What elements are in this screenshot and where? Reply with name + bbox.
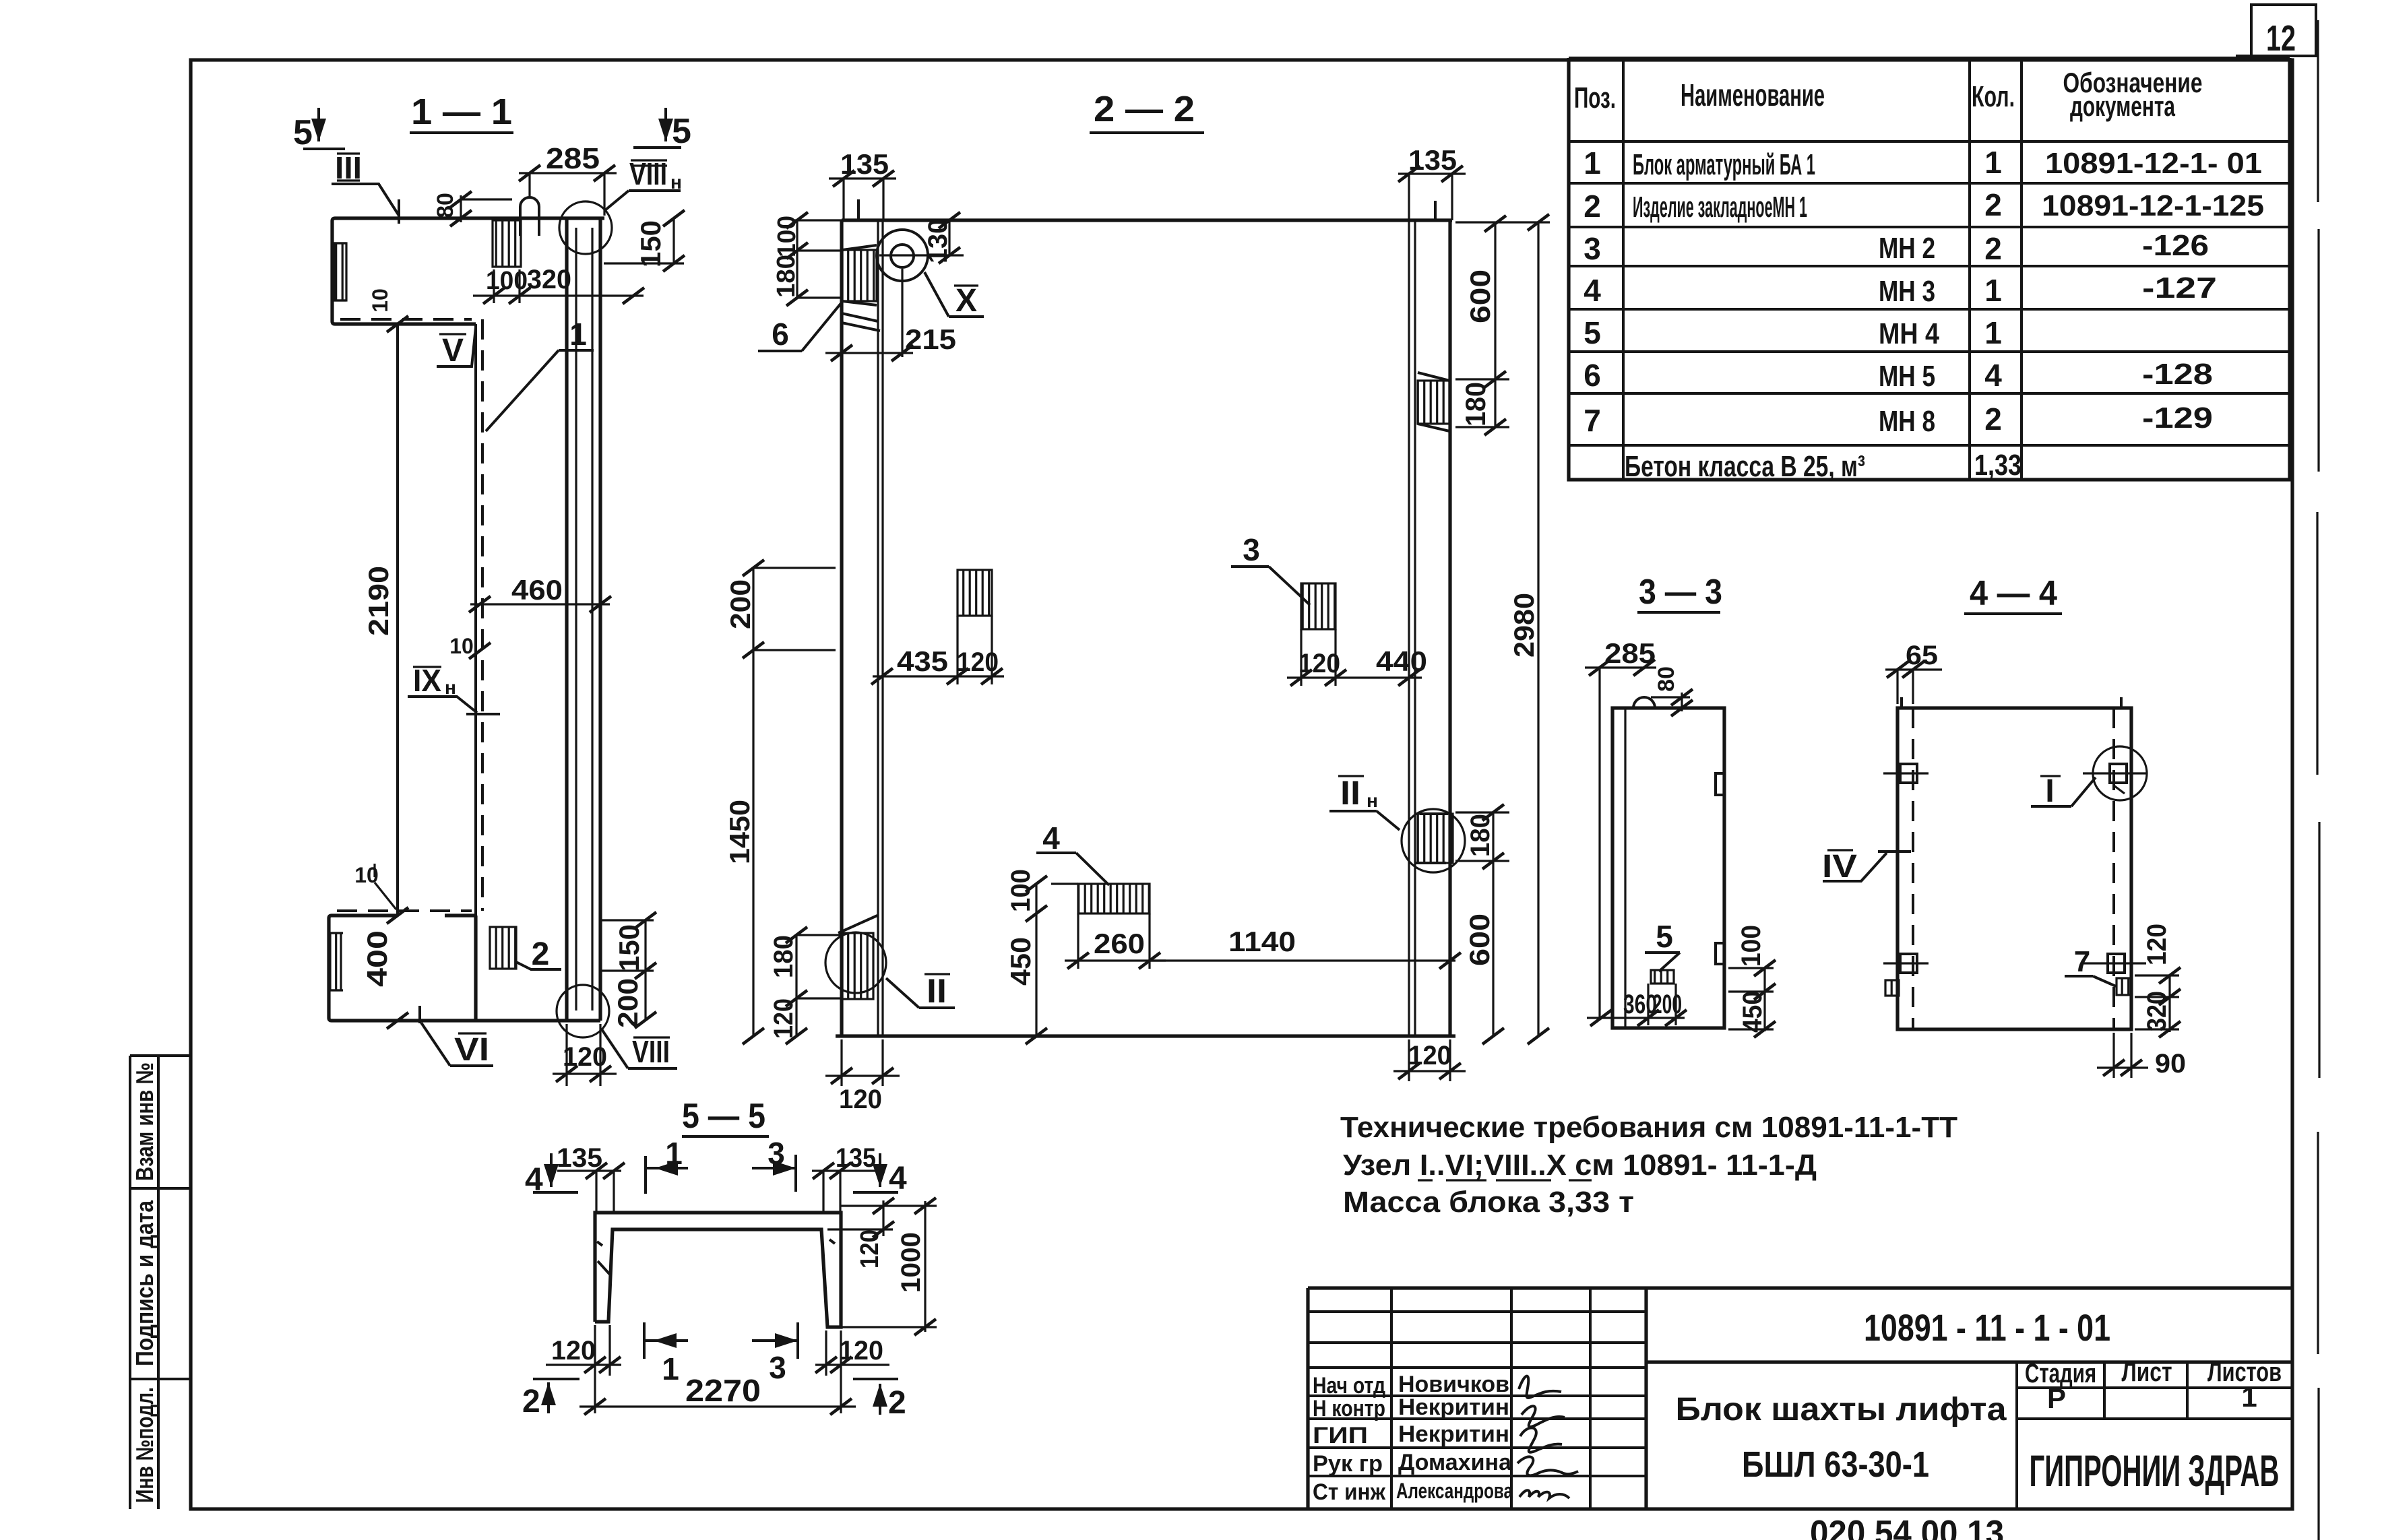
svg-text:IV: IV xyxy=(1822,849,1857,885)
plate edge marks right side xyxy=(1716,773,1724,964)
svg-text:I: I xyxy=(2045,773,2054,809)
table header Поз xyxy=(1574,82,1616,115)
dim 80 of 3-3 xyxy=(1651,666,1693,716)
table row 4 МН3 xyxy=(1584,271,2217,308)
svg-text:10: 10 xyxy=(368,288,392,313)
svg-text:10891-12-1- 01: 10891-12-1- 01 xyxy=(2045,147,2262,180)
stamp label Инв № подл xyxy=(131,1387,158,1503)
plate МН4 in 3-3 xyxy=(1651,970,1674,984)
svg-text:2: 2 xyxy=(888,1385,906,1421)
table header Наименование xyxy=(1681,77,1825,113)
svg-text:600: 600 xyxy=(1464,269,1496,323)
dims 120 320 of 4-4 xyxy=(2135,924,2181,1037)
section 2-2 right wall xyxy=(1409,220,1450,1036)
svg-text:МН 3: МН 3 xyxy=(1879,275,1935,308)
svg-text:135: 135 xyxy=(840,148,889,180)
leader label 7 xyxy=(2065,945,2116,986)
node II bottom left wall xyxy=(825,916,955,1010)
svg-text:2: 2 xyxy=(1984,187,2002,222)
node II_н bottom right wall xyxy=(1329,774,1465,872)
svg-text:3 — 3: 3 — 3 xyxy=(1639,573,1722,612)
dim 120 bottom left of 5-5 xyxy=(546,1325,621,1413)
svg-text:Некритин: Некритин xyxy=(1398,1421,1509,1447)
section 2-2 bottom edge xyxy=(836,1034,1455,1037)
svg-text:285: 285 xyxy=(1604,637,1656,669)
node label III xyxy=(332,150,399,224)
section mark 5 down right xyxy=(633,108,691,151)
right wall of 1-1 xyxy=(567,218,600,1021)
svg-text:БШЛ 63-30-1: БШЛ 63-30-1 xyxy=(1742,1444,1929,1485)
svg-text:150: 150 xyxy=(613,924,645,971)
dims 180 120 bottom left xyxy=(769,927,842,1044)
left stamp column boxes xyxy=(130,1056,191,1509)
svg-text:VI: VI xyxy=(454,1032,489,1068)
svg-text:150: 150 xyxy=(635,220,666,267)
section 5-5 channel outline xyxy=(595,1213,841,1327)
svg-text:Технические требования см 1: Технические требования см 10891-11-1-ТТ xyxy=(1340,1111,1957,1144)
dim 260 xyxy=(1065,913,1166,969)
dims 120 440 mid right xyxy=(1287,629,1427,686)
lifting loop xyxy=(520,197,539,236)
cut marker 1 top xyxy=(646,1136,688,1194)
dim 285 of 3-3 xyxy=(1585,637,1656,1018)
svg-text:180: 180 xyxy=(769,935,798,978)
plate МН3 bottom center xyxy=(1036,821,1150,913)
dim 120 under left wall xyxy=(825,1039,900,1114)
note line 2 Узел I..VI VIII X xyxy=(1343,1149,1817,1182)
section mark 4 down right xyxy=(853,1153,907,1196)
svg-text:II: II xyxy=(927,972,947,1010)
left wall verticals of 1-1 xyxy=(398,319,482,916)
svg-text:320: 320 xyxy=(2142,991,2172,1031)
svg-text:Александрова: Александрова xyxy=(1396,1479,1513,1503)
section 3-3 outline xyxy=(1612,708,1724,1028)
title block outer lines xyxy=(1308,1288,2292,1509)
svg-text:2 — 2: 2 — 2 xyxy=(1094,89,1195,129)
svg-text:Домахина: Домахина xyxy=(1398,1450,1512,1475)
left side plates of 4-4 xyxy=(1883,764,1929,996)
svg-text:7: 7 xyxy=(2074,945,2090,978)
svg-text:1: 1 xyxy=(2241,1381,2257,1413)
dim 120 bottom of 1-1 xyxy=(553,1024,617,1086)
svg-text:IX: IX xyxy=(413,663,441,698)
dim 180 right top xyxy=(1455,379,1509,435)
dim 10 upper xyxy=(368,288,408,332)
svg-text:120: 120 xyxy=(1408,1041,1451,1070)
ghost archive number below frame xyxy=(1810,1514,2004,1540)
svg-text:3: 3 xyxy=(767,1136,785,1171)
dim 10 middle xyxy=(449,634,491,659)
svg-text:1: 1 xyxy=(665,1136,683,1171)
dim 460 xyxy=(469,574,611,612)
svg-text:1,33: 1,33 xyxy=(1974,449,2021,482)
staff row Нач отд Новичков xyxy=(1313,1372,1561,1399)
svg-text:5: 5 xyxy=(293,113,313,152)
svg-text:Поз.: Поз. xyxy=(1574,82,1616,115)
svg-text:Кол.: Кол. xyxy=(1972,80,2015,113)
svg-text:65: 65 xyxy=(1906,641,1938,670)
staff row Н контр Некритин xyxy=(1313,1394,1565,1427)
leg inner marks xyxy=(597,1240,835,1276)
svg-text:4 — 4: 4 — 4 xyxy=(1970,574,2057,613)
svg-text:VIII: VIII xyxy=(632,1034,670,1069)
table header Обозначение документа xyxy=(2063,67,2203,122)
svg-text:Изделие закладноеМН 1: Изделие закладноеМН 1 xyxy=(1633,191,1807,224)
svg-text:5: 5 xyxy=(1584,315,1601,350)
svg-text:4: 4 xyxy=(1984,358,2002,393)
dims 435 120 mid left xyxy=(871,616,1004,684)
svg-text:120: 120 xyxy=(856,1229,884,1269)
dim 10 lower xyxy=(354,863,396,909)
parts table grid xyxy=(1569,58,2290,480)
svg-text:н: н xyxy=(1367,790,1378,811)
svg-text:документа: документа xyxy=(2070,90,2175,122)
svg-text:2270: 2270 xyxy=(685,1373,761,1408)
svg-text:Наименование: Наименование xyxy=(1681,77,1825,113)
svg-text:5: 5 xyxy=(672,112,691,151)
svg-text:460: 460 xyxy=(511,574,563,606)
svg-text:200: 200 xyxy=(612,978,644,1028)
svg-text:135: 135 xyxy=(1408,144,1457,176)
section 3-3 lifting loop xyxy=(1633,697,1655,708)
node label IX xyxy=(408,663,500,714)
svg-text:90: 90 xyxy=(2155,1049,2186,1079)
title Блок шахты лифта xyxy=(1676,1392,2007,1427)
mark БШЛ 63-30-1 xyxy=(1742,1444,1929,1485)
svg-text:-128: -128 xyxy=(2142,358,2213,391)
svg-text:10891 - 11 - 1 - 01: 10891 - 11 - 1 - 01 xyxy=(1864,1306,2110,1349)
svg-text:135: 135 xyxy=(836,1143,876,1173)
svg-text:МН 8: МН 8 xyxy=(1879,405,1935,438)
dim 100 320 xyxy=(473,265,644,304)
svg-text:100: 100 xyxy=(486,267,528,295)
svg-text:100: 100 xyxy=(1736,925,1766,967)
svg-text:2: 2 xyxy=(522,1384,540,1419)
dim 150 top xyxy=(604,210,685,271)
dim 120 slab of 5-5 xyxy=(827,1198,937,1269)
svg-text:1: 1 xyxy=(569,317,587,352)
dims 150 200 bottom right xyxy=(600,912,656,1028)
right side plates of 4-4 xyxy=(2083,954,2146,995)
svg-text:120: 120 xyxy=(957,647,999,677)
svg-text:Инв №подл.: Инв №подл. xyxy=(131,1387,158,1503)
page number box 12 xyxy=(2236,5,2316,59)
dims 200 1450 left xyxy=(724,560,836,1044)
dim 135 right top xyxy=(1398,144,1466,220)
stage Р xyxy=(2047,1382,2066,1414)
svg-text:V: V xyxy=(442,333,464,368)
svg-text:Р: Р xyxy=(2047,1382,2066,1414)
svg-text:МН 2: МН 2 xyxy=(1879,232,1935,265)
svg-text:180: 180 xyxy=(1466,814,1495,857)
staff row ГИП Некритин xyxy=(1313,1421,1562,1452)
svg-text:120: 120 xyxy=(563,1042,607,1072)
table row 7 МН8 xyxy=(1584,402,2213,438)
svg-text:10891-12-1-125: 10891-12-1-125 xyxy=(2042,189,2264,222)
svg-text:215: 215 xyxy=(905,323,956,355)
svg-text:2: 2 xyxy=(1584,189,1601,224)
dim 2190 xyxy=(363,566,408,924)
section mark 2 up right xyxy=(853,1379,906,1421)
section 4-4 title xyxy=(1964,574,2062,614)
dim 1000 of 5-5 xyxy=(836,1198,937,1335)
svg-text:320: 320 xyxy=(527,265,571,294)
svg-text:ГИПРОНИИ ЗДРАВ: ГИПРОНИИ ЗДРАВ xyxy=(2030,1446,2280,1496)
staff row Ст инж Александрова xyxy=(1313,1479,1569,1505)
svg-text:2: 2 xyxy=(532,936,550,972)
svg-text:100: 100 xyxy=(1006,869,1036,912)
dim 120 bottom right of 5-5 xyxy=(815,1330,889,1413)
section 1-1 top band outline xyxy=(332,218,604,324)
dim 400 xyxy=(361,930,408,1029)
svg-text:6: 6 xyxy=(772,317,789,352)
dim 135 top left of 5-5 xyxy=(557,1143,625,1211)
dims 180 600 bottom right xyxy=(1455,804,1509,1044)
dim 1140 xyxy=(1150,926,1461,969)
svg-text:Бетон класса В 25, м³: Бетон класса В 25, м³ xyxy=(1625,450,1865,483)
svg-text:2190: 2190 xyxy=(363,566,394,636)
dims 100 180 left wall xyxy=(772,212,842,306)
section mark 2 up left xyxy=(522,1379,579,1419)
plate МН5 on right wall top xyxy=(1418,373,1449,431)
svg-text:-127: -127 xyxy=(2142,271,2217,304)
svg-text:Узел I..VI;VIII..X см 10891-: Узел I..VI;VIII..X см 10891- 11-1-Д xyxy=(1343,1149,1817,1182)
dim 65 xyxy=(1885,641,1942,704)
svg-text:Н контр: Н контр xyxy=(1313,1396,1385,1421)
top band left end groove xyxy=(332,243,346,300)
section 1-1 bottom flange outline xyxy=(329,911,600,1021)
dim 135 top right of 5-5 xyxy=(812,1143,876,1211)
svg-text:135: 135 xyxy=(557,1143,602,1173)
svg-text:Масса блока 3,33 т: Масса блока 3,33 т xyxy=(1343,1186,1634,1219)
svg-text:Рук гр: Рук гр xyxy=(1313,1451,1383,1477)
staff row Рук гр Домахина xyxy=(1313,1450,1578,1477)
svg-text:Блок арматурный БА 1: Блок арматурный БА 1 xyxy=(1633,148,1815,181)
dims 360 200 of 3-3 xyxy=(1587,984,1687,1026)
svg-text:-129: -129 xyxy=(2142,402,2213,435)
svg-text:3: 3 xyxy=(769,1350,786,1385)
svg-text:120: 120 xyxy=(769,998,798,1039)
svg-text:7: 7 xyxy=(1584,403,1601,438)
plate 3 mid right xyxy=(1231,532,1336,629)
doc number 10891-11-1-01 xyxy=(1864,1306,2110,1349)
bottom flange left groove xyxy=(329,933,343,990)
sheet cut edge broken line xyxy=(2317,20,2319,1540)
svg-text:1: 1 xyxy=(1584,146,1601,181)
dim 2980 xyxy=(1455,214,1550,1044)
plate ticks on top edge xyxy=(858,199,1435,220)
svg-text:4: 4 xyxy=(1042,821,1060,856)
header Листов xyxy=(2207,1357,2282,1387)
svg-text:3: 3 xyxy=(1243,532,1260,567)
node circle VIII top xyxy=(559,156,682,254)
svg-text:435: 435 xyxy=(897,645,948,677)
node label V xyxy=(437,327,476,368)
svg-text:6: 6 xyxy=(1584,358,1601,393)
svg-text:200: 200 xyxy=(1652,990,1682,1019)
dim 80 xyxy=(433,191,512,226)
svg-text:Новичков: Новичков xyxy=(1398,1372,1509,1397)
svg-text:5: 5 xyxy=(1656,919,1673,954)
svg-text:80: 80 xyxy=(1654,666,1679,692)
cut marker 3 bottom xyxy=(752,1322,798,1385)
dims 100 450 of 3-3 xyxy=(1728,925,1776,1037)
dim 130 xyxy=(923,212,960,263)
svg-text:II: II xyxy=(1340,774,1360,812)
section mark 4 down left xyxy=(525,1153,578,1198)
svg-text:80: 80 xyxy=(433,193,458,218)
cut marker 1 bottom xyxy=(644,1322,688,1386)
title block right grid xyxy=(2017,1362,2292,1509)
svg-text:Блок шахты лифта: Блок шахты лифта xyxy=(1676,1392,2007,1427)
org ГИПРОНИИ ЗДРАВ xyxy=(2030,1446,2280,1496)
dims 100 450 center xyxy=(1005,869,1078,1044)
svg-text:1: 1 xyxy=(1984,145,2002,180)
section 5-5 title xyxy=(682,1097,769,1136)
stamp label Взам инв № xyxy=(131,1062,158,1181)
svg-text:1: 1 xyxy=(1984,315,2002,350)
dim 215 xyxy=(825,323,956,361)
dim 285 xyxy=(519,142,617,216)
svg-text:2: 2 xyxy=(1984,402,2002,437)
svg-text:260: 260 xyxy=(1094,928,1145,959)
svg-text:600: 600 xyxy=(1464,913,1495,966)
svg-text:285: 285 xyxy=(546,142,600,175)
node circle I xyxy=(2031,746,2147,809)
section 4-4 outline xyxy=(1898,708,2131,1029)
svg-text:450: 450 xyxy=(1005,937,1036,986)
section mark 5 down left xyxy=(293,108,345,152)
section 2-2 top edge xyxy=(842,218,1452,222)
note line 1 Технические требования xyxy=(1340,1111,1957,1144)
leader label 5 xyxy=(1645,919,1680,971)
dim 135 left top xyxy=(829,148,896,220)
section 2-2 left wall xyxy=(842,220,883,1036)
plate 2 mid left xyxy=(958,570,992,616)
svg-text:Подпись и дата: Подпись и дата xyxy=(131,1200,158,1366)
strand hole circle node X xyxy=(877,230,984,357)
svg-text:-126: -126 xyxy=(2142,229,2209,262)
svg-text:1: 1 xyxy=(662,1351,679,1386)
table row 6 МН5 xyxy=(1584,358,2213,393)
svg-text:4: 4 xyxy=(1584,273,1601,308)
sheets 1 xyxy=(2241,1381,2257,1413)
svg-text:VIII: VIII xyxy=(629,156,667,191)
svg-text:Лист: Лист xyxy=(2122,1357,2172,1387)
table row 3 МН2 xyxy=(1584,229,2209,266)
svg-text:120: 120 xyxy=(839,1336,883,1366)
svg-text:440: 440 xyxy=(1376,645,1427,677)
section 2-2 title xyxy=(1090,89,1204,133)
table row 5 МН4 xyxy=(1584,315,2002,350)
stamp label Подпись и дата xyxy=(131,1200,158,1366)
svg-text:120: 120 xyxy=(839,1085,882,1114)
svg-text:МН 5: МН 5 xyxy=(1879,360,1935,393)
dim 90 of 4-4 xyxy=(2097,1033,2186,1079)
embedded plate 2 in flange xyxy=(490,927,561,972)
svg-text:120: 120 xyxy=(1298,649,1340,678)
section 1-1 title xyxy=(410,92,513,133)
svg-text:X: X xyxy=(955,283,977,319)
svg-text:1000: 1000 xyxy=(896,1232,926,1293)
leader label 1 xyxy=(486,317,594,431)
leader label 6 xyxy=(758,302,842,352)
dim 120 under right wall xyxy=(1393,1039,1466,1081)
node label IV xyxy=(1822,849,1911,885)
svg-text:200: 200 xyxy=(724,579,756,629)
svg-text:450: 450 xyxy=(1738,991,1767,1033)
svg-text:ГИП: ГИП xyxy=(1313,1423,1368,1448)
svg-text:2980: 2980 xyxy=(1508,593,1540,657)
node label VI xyxy=(420,1006,493,1068)
svg-text:400: 400 xyxy=(361,930,393,987)
table row Бетон класса В25 xyxy=(1625,449,2021,483)
svg-text:10: 10 xyxy=(449,634,474,658)
svg-text:Взам инв №: Взам инв № xyxy=(131,1062,158,1181)
cut marker 3 top xyxy=(752,1136,796,1192)
svg-text:1450: 1450 xyxy=(724,800,755,864)
plate ticks above 4-4 xyxy=(1902,697,2121,708)
svg-text:1 — 1: 1 — 1 xyxy=(411,92,512,132)
svg-text:н: н xyxy=(445,677,456,698)
node circle VIII bottom xyxy=(557,985,677,1069)
svg-text:Некритин: Некритин xyxy=(1398,1394,1509,1420)
svg-text:020 54 00 13: 020 54 00 13 xyxy=(1810,1514,2004,1540)
svg-text:130: 130 xyxy=(923,219,953,263)
svg-text:1140: 1140 xyxy=(1228,926,1296,957)
table row 1 Блок арматурный БА1 xyxy=(1584,145,2262,181)
svg-text:Ст инж: Ст инж xyxy=(1313,1479,1386,1505)
svg-text:120: 120 xyxy=(551,1336,596,1366)
table header Кол xyxy=(1972,80,2015,113)
svg-text:12: 12 xyxy=(2266,18,2296,59)
svg-text:1: 1 xyxy=(1984,273,2002,308)
dim 2270 xyxy=(579,1373,856,1415)
plate МН5 on left wall top xyxy=(842,245,880,331)
section 3-3 title xyxy=(1637,573,1722,612)
svg-text:5 — 5: 5 — 5 xyxy=(682,1097,765,1136)
svg-text:Нач отд: Нач отд xyxy=(1313,1373,1385,1399)
title block staff grid xyxy=(1308,1288,1646,1509)
svg-text:180: 180 xyxy=(1460,382,1491,426)
svg-text:МН 4: МН 4 xyxy=(1879,317,1939,350)
header Стадия xyxy=(2025,1359,2096,1388)
svg-text:120: 120 xyxy=(2142,924,2172,965)
note line 3 Масса блока xyxy=(1343,1186,1634,1219)
svg-text:2: 2 xyxy=(1984,231,2002,266)
svg-text:100: 100 xyxy=(773,216,801,257)
embedded plate on top band xyxy=(493,220,521,267)
svg-text:3: 3 xyxy=(1584,231,1601,266)
header Лист xyxy=(2122,1357,2172,1387)
table row 2 Изделие закладное МН1 xyxy=(1584,187,2264,224)
svg-text:180: 180 xyxy=(772,255,801,298)
dim 600 right top xyxy=(1455,216,1509,387)
